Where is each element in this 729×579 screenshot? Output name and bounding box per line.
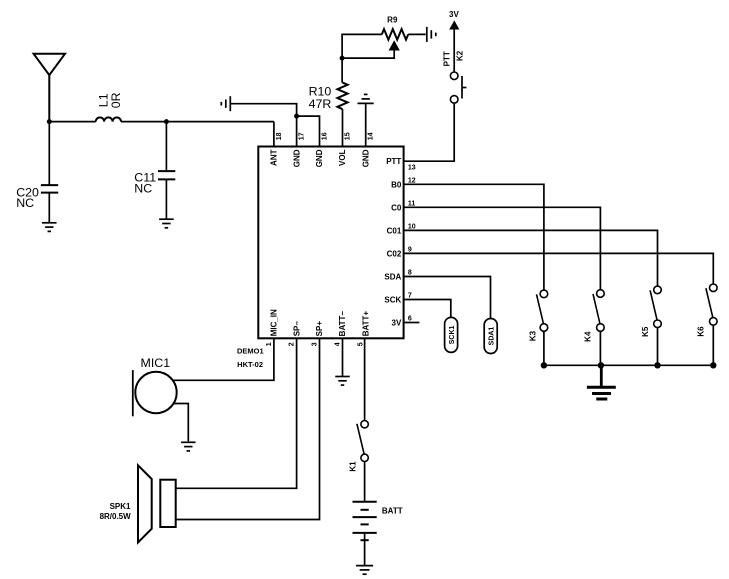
wire K6 to bus [712,325,714,365]
svg-text:HKT-02: HKT-02 [237,360,263,369]
svg-text:VOL: VOL [338,149,347,166]
svg-text:18: 18 [276,132,283,140]
svg-text:SDA: SDA [384,273,401,282]
wire pin6 3V stub [404,322,420,324]
wire K4 to bus [599,331,601,365]
wire gnd to pin14 [365,103,367,146]
capacitor C20 [16,122,58,223]
svg-text:47R: 47R [309,97,332,111]
wire pin7 SCK to SCK1 [404,300,451,318]
node bus junction [710,362,716,368]
svg-text:SCK: SCK [384,296,401,305]
resistor R10 47R [309,83,348,147]
svg-text:K4: K4 [583,331,592,342]
ground MIC1 [181,442,196,451]
microphone MIC1 [133,356,177,416]
wire K5 to bus [657,328,659,366]
svg-text:2: 2 [289,342,296,346]
svg-text:BATT+: BATT+ [361,311,370,337]
wire pin10 C01 to K5 [404,230,658,286]
node bus junction [541,362,547,368]
wire K3 to bus [543,331,545,365]
svg-text:SPK1: SPK1 [110,502,131,511]
svg-text:R9: R9 [387,16,398,25]
svg-text:K3: K3 [529,330,538,341]
svg-text:DEMO1: DEMO1 [237,347,264,356]
wire pin3 SP+ to speaker [176,338,320,519]
wire pin11 C0 to K4 [404,207,601,289]
switch K6 [697,284,718,337]
wire K2 to pin 13 [404,103,455,161]
wire pin9 C02 to K6 [404,253,714,284]
wire pin2 SP- to speaker [176,338,297,488]
wire K1 to battery [364,462,366,502]
node antenna junction [47,119,52,124]
wire MIC1 to ground [173,404,188,442]
ground BATT- [335,377,350,386]
inductor L1 0R [96,92,124,121]
ground C20 [42,223,57,232]
svg-text:NC: NC [134,181,152,195]
svg-text:0R: 0R [109,92,123,108]
battery BATT [353,502,403,541]
power 3V [449,10,459,72]
svg-text:K2: K2 [455,50,464,61]
antenna [34,54,65,122]
switch K5 [641,286,661,337]
svg-text:3V: 3V [449,10,459,19]
svg-text:BATT−: BATT− [338,311,347,337]
ground GND pins 17/16 [221,96,230,111]
svg-text:K6: K6 [697,326,706,337]
svg-text:K5: K5 [641,326,650,337]
svg-text:C02: C02 [387,249,402,258]
ground (bold) for key bus [587,365,616,399]
svg-text:ANT: ANT [270,149,279,166]
svg-text:5: 5 [358,342,365,346]
svg-text:8R/0.5W: 8R/0.5W [100,512,132,521]
svg-text:1: 1 [266,342,273,346]
wire ground bus [544,364,713,366]
wire pin4 BATT- to ground [342,338,344,376]
ground battery [356,566,373,575]
svg-text:17: 17 [299,132,306,140]
ground C11 [159,219,174,228]
terminal SCK1 [445,317,458,352]
op-amp U1 DEMO1 HKT-02 (IC body) [258,147,403,339]
svg-text:SDA1: SDA1 [488,327,495,346]
speaker SPK1 8R/0.5W [100,465,176,542]
wire pin5 BATT+ to K1 [364,338,366,420]
wire antenna node [49,122,274,147]
wire pin1 MIC_IN to MIC1 [173,338,274,380]
svg-text:PTT: PTT [386,157,401,166]
node bus junction [598,362,604,368]
ground GND pin 14 (inverted) [358,94,374,103]
svg-text:K1: K1 [348,461,357,472]
svg-text:4: 4 [335,342,342,346]
svg-text:3V: 3V [392,319,402,328]
pushbutton K2 PTT [442,50,466,103]
svg-text:BATT: BATT [382,506,403,515]
node C11 junction [164,119,169,124]
wire battery to ground [364,540,366,565]
switch K4 [583,290,604,342]
svg-text:B0: B0 [391,180,402,189]
svg-text:SP+: SP+ [315,321,324,337]
svg-text:13: 13 [408,164,416,171]
switch K1 [348,421,368,472]
potentiometer R9 [342,16,426,83]
svg-text:C01: C01 [387,226,402,235]
svg-text:3: 3 [312,342,319,346]
node R9/R10 junction [340,56,345,61]
svg-text:PTT: PTT [442,51,451,66]
wire pin8 SDA to SDA1 [404,277,491,319]
svg-text:GND: GND [361,149,370,167]
wire battery internal [364,533,366,540]
switch K3 [529,290,548,341]
svg-text:SCK1: SCK1 [449,325,456,344]
svg-text:15: 15 [344,132,351,140]
wire ground to pin17/16 [230,104,319,147]
terminal SDA1 [484,319,497,354]
svg-text:GND: GND [315,149,324,167]
capacitor C11 [134,122,175,220]
svg-text:14: 14 [368,132,375,140]
ground R9 (rotated right) [427,27,436,42]
svg-text:MIC_IN: MIC_IN [270,309,279,336]
svg-text:MIC1: MIC1 [141,356,171,370]
node pin17 junction [294,114,299,119]
svg-text:SP−: SP− [292,321,301,337]
svg-text:NC: NC [16,196,34,210]
svg-text:16: 16 [321,132,328,140]
svg-text:C0: C0 [391,203,402,212]
node bus junction [654,362,660,368]
svg-text:GND: GND [292,149,301,167]
wire pin12 B0 to K3 [404,184,544,290]
